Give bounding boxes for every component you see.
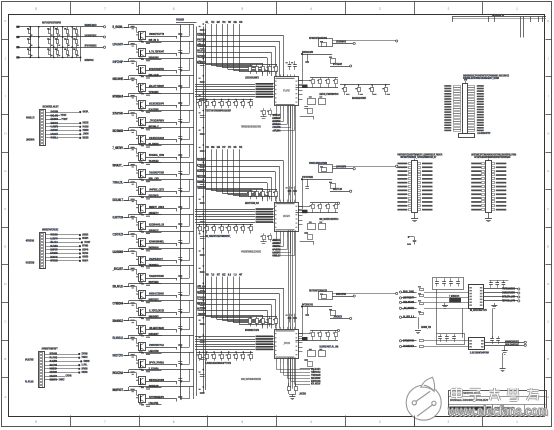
section 1 fan wire 1 <box>276 110 278 116</box>
wire out1 end tick Q13 <box>176 244 178 247</box>
section 3 rc lower rail <box>296 340 339 342</box>
svg-text:8DTH8K8: 8DTH8K8 <box>50 352 58 356</box>
wire input Q9 <box>124 165 130 167</box>
capacitor far bus Q13 <box>200 236 205 238</box>
connector J4 pin row 18 <box>444 130 451 132</box>
junction <box>38 46 40 48</box>
section 3 bus wire 3 <box>195 341 255 343</box>
IC U2 pin left 3 <box>273 214 274 216</box>
section 3 lower rail <box>196 352 253 354</box>
IC U3 pin top 5 <box>290 327 292 330</box>
resistor emitter Q4 <box>141 93 144 94</box>
border row tick left <box>2 114 9 116</box>
IC U2 body <box>275 203 299 232</box>
resistor base Q7 <box>131 130 135 131</box>
svg-text:P53NY4: P53NY4 <box>82 259 88 262</box>
wire emitter rail Q18 <box>146 329 177 331</box>
wire emitter rail Q22 <box>146 398 177 400</box>
wire emitter rail Q10 <box>146 191 177 193</box>
section 3 rc res rail <box>310 330 338 332</box>
wire base Q19 <box>124 338 137 340</box>
connector J5 body <box>412 161 418 213</box>
title block row line 1 <box>448 396 546 398</box>
connector J3 pin box <box>40 359 43 361</box>
IC U3 pin top 6 <box>294 327 296 330</box>
resistor base Q13 <box>131 233 135 234</box>
svg-text:1A_KP3_5_5: 1A_KP3_5_5 <box>403 315 414 319</box>
IC U1 body <box>275 77 299 106</box>
IC U1 pin number right <box>296 89 298 90</box>
wire collector Q22 <box>136 390 138 395</box>
resistor emitter Q19 <box>141 352 144 353</box>
capacitor bus Q19 <box>178 344 182 346</box>
section 2 IC pin name 4 <box>256 216 274 218</box>
connector J2 pin box <box>41 246 44 248</box>
svg-text:XTE: XTE <box>464 80 467 82</box>
svg-text:TV_TV7E: TV_TV7E <box>50 355 58 359</box>
wire out2 Q17 <box>146 318 162 320</box>
section 3 rc cap2 <box>304 359 308 361</box>
svg-text:B: B <box>4 357 6 361</box>
svg-text:0NDU9HE: 0NDU9HE <box>113 77 124 81</box>
section 1 rc box small <box>308 109 313 114</box>
capacitor bus Q20 <box>178 361 182 363</box>
wire base Q9 <box>124 165 137 167</box>
wire cell rail Q3 <box>129 58 194 60</box>
connector J4 pin row 13 <box>444 117 451 119</box>
IC U1 pin left 6 <box>273 96 274 98</box>
wire out1 end tick Q5 <box>176 105 178 108</box>
transistor Q21 body <box>139 377 146 385</box>
IC U1 pin top 3 <box>283 74 285 77</box>
wire riser Q15 <box>128 266 130 269</box>
connector J4 pin row 11 <box>444 111 451 113</box>
svg-text:DGD40GT: DGD40GT <box>51 128 59 132</box>
svg-text:HV0HX6M: HV0HX6M <box>51 110 59 114</box>
section 2 bus drop wire 5 <box>227 149 229 194</box>
connector J1 wire pin2 <box>46 115 60 117</box>
section 1 far resistor 3 <box>372 85 374 88</box>
resistor RN5B <box>76 40 78 44</box>
connector J3 pin box <box>40 362 43 364</box>
wire cell rail Q16 <box>129 283 194 285</box>
section 2 series resistor 7 <box>243 225 245 227</box>
section 3 IC pin name 1 <box>256 336 274 338</box>
border row tick right <box>546 377 552 379</box>
IC U1 pin top 5 <box>290 74 292 77</box>
section 3 rc transistor Qd <box>319 351 326 357</box>
section 3 fan wire 1 <box>276 362 278 370</box>
power rail tick <box>488 17 490 23</box>
IC U2 pin top 6 <box>294 200 296 203</box>
title block row line 2 <box>448 404 546 406</box>
border row tick left <box>2 227 9 229</box>
wire riser Q22 <box>128 387 130 390</box>
resistor emitter Q7 <box>141 145 144 146</box>
U5 gnd drop wire <box>502 353 504 369</box>
svg-text:2916018V: 2916018V <box>149 56 159 60</box>
connector J2 pin box <box>41 264 44 266</box>
section 1 far resistor 2 <box>358 85 360 88</box>
resistor base Q6 <box>131 112 135 113</box>
svg-text:DSEC0E: DSEC0E <box>83 123 89 125</box>
U5 cap cluster box <box>437 334 465 345</box>
wire base Q15 <box>124 269 137 271</box>
wire emitter rail Q4 <box>146 87 177 89</box>
svg-text:9UC: 9UC <box>234 147 237 149</box>
section 3 rc vert <box>307 307 309 315</box>
bus jog Q1 <box>189 24 191 36</box>
IC U2 pin top 5 <box>290 200 292 203</box>
section 3 rc transistor Qa <box>322 295 327 299</box>
section 3 bus wire 1 <box>195 336 255 338</box>
resistor emitter Q9 <box>141 179 144 180</box>
wire cell rail Q5 <box>129 93 194 95</box>
section 1 rc transistor Qd <box>319 99 326 105</box>
resistor base Q18 <box>131 320 135 321</box>
capacitor C4 <box>456 281 460 283</box>
connector J5 pin row 3 <box>397 170 407 172</box>
border row tick right <box>546 114 552 116</box>
section 3 input wire 5 <box>198 310 268 312</box>
capacitor bus Q13 <box>178 240 182 242</box>
svg-text:V_RK9T9: V_RK9T9 <box>51 125 59 129</box>
svg-text:NHBKA1TZBNUD: NHBKA1TZBNUD <box>149 291 164 295</box>
wire collector Q13 <box>136 235 138 240</box>
capacitor far bus Q16 <box>200 288 205 290</box>
IC U3 pin bottom wire 1 <box>276 359 278 363</box>
connector J3 pin box <box>40 353 43 355</box>
connector J2 pin box <box>41 252 44 254</box>
section 1 rc bottom wire <box>300 116 314 118</box>
svg-text:1LVPHC5BTR: 1LVPHC5BTR <box>336 167 346 169</box>
resistor base Q20 <box>131 354 135 355</box>
wire out2 Q22 <box>146 404 162 406</box>
section 1 bus wire 4 <box>195 91 255 93</box>
IC U2 pin bottom wire 3 <box>283 231 285 237</box>
connector J6 pin row 9 <box>471 193 481 195</box>
section 2 bus wire 6 <box>195 222 255 224</box>
section 3 rc box small <box>308 362 313 367</box>
section 3 pullup resistor 2 <box>256 317 258 319</box>
section 3 rc resistor 4 <box>335 330 337 332</box>
wire emitter rail Q21 <box>146 381 177 383</box>
section 1 IC pin name 5 <box>256 93 274 95</box>
connector J1 wire pin1 <box>46 112 79 114</box>
IC U3 pin top 3 <box>283 327 285 330</box>
svg-text:M82F6GT: M82F6GT <box>113 388 124 392</box>
section 2 fan wire 2 <box>280 236 282 243</box>
section 2 res rail end ring <box>337 202 339 204</box>
section 3 input wire 3 <box>198 299 276 301</box>
resistor emitter Q20 <box>141 370 144 371</box>
IC U2 pin number left <box>275 223 277 224</box>
capacitor bus Q18 <box>178 326 182 328</box>
connector J2 wire pin7 <box>46 257 79 259</box>
capacitor far bus Q1 <box>200 29 205 31</box>
wire cell rail Q6 <box>129 110 194 112</box>
clock wires into U4 <box>424 292 468 294</box>
connector J4 body <box>463 84 468 134</box>
svg-text:F: F <box>4 207 6 211</box>
svg-text:35T: 35T <box>217 275 221 277</box>
capacitor C3 <box>449 281 453 283</box>
section 3 fan wire 2 <box>280 363 282 372</box>
section 2 below gnd <box>261 241 267 243</box>
IC U4 right pin labels <box>480 287 483 289</box>
connector J2 pin terminal <box>79 260 81 262</box>
power rail top <box>452 16 546 18</box>
svg-text:6NK3S1E4C6B8: 6NK3S1E4C6B8 <box>149 378 164 382</box>
resistor RN5C <box>76 51 78 55</box>
border row tick right <box>546 227 552 229</box>
section 1 below resistor 1 <box>263 108 265 110</box>
svg-text:4: 4 <box>310 7 312 11</box>
section 3 bus down wire 4 <box>295 358 297 389</box>
wire base Q22 <box>124 390 137 392</box>
wire riser Q6 <box>128 110 130 113</box>
section 1 series resistor 8 <box>250 100 252 102</box>
section 1 bus wire 5 <box>195 94 255 96</box>
border row tick right <box>546 302 552 304</box>
wire collector Q21 <box>136 373 138 378</box>
wire out2 Q18 <box>146 335 162 337</box>
connector J6 pin row 2 <box>471 166 481 168</box>
bus jog Q20 <box>189 352 191 364</box>
section 2 rc transistor Qc <box>308 224 316 230</box>
svg-text:_NM_XKNZ7D: _NM_XKNZ7D <box>402 306 414 310</box>
transistor Q9 body <box>139 170 146 178</box>
IC U1 pin number left <box>275 93 277 94</box>
section 2 series resistor 4 <box>221 225 223 227</box>
wire emitter rail Q11 <box>146 208 177 210</box>
wire riser Q18 <box>128 318 130 321</box>
transistor Q17 body <box>139 308 146 316</box>
connector J1 pin box <box>41 144 44 146</box>
wire cell rail Q11 <box>129 196 194 198</box>
section 1 rc cap2 <box>304 106 308 108</box>
transistor Q6 body <box>139 118 146 126</box>
wire input Q2 <box>124 44 130 46</box>
section 2 input wire 1 <box>198 160 284 162</box>
connector J5 pin row 9 <box>397 193 407 195</box>
connector J1 wire pin4 <box>46 123 79 125</box>
wire base Q6 <box>124 113 137 115</box>
connector J6 pin row 13 <box>471 209 481 211</box>
section 1 IC pin name 3 <box>256 88 274 90</box>
svg-text:4F4Y0S0MEHP1: 4F4Y0S0MEHP1 <box>149 395 164 399</box>
section 1 bus down wire 1 <box>288 105 290 202</box>
IC U2 pin number left <box>275 227 277 228</box>
bus jog Q4 <box>189 76 191 88</box>
section 3 series resistor 7 <box>243 352 245 354</box>
wire input Q1 <box>124 27 130 29</box>
section 3 bus wire 2 <box>195 339 255 341</box>
IC U3 bottom pin numbers <box>276 357 295 358</box>
svg-text:9VXGPXS2NYAK: 9VXGPXS2NYAK <box>149 67 165 71</box>
resistor emitter Q13 <box>141 249 144 250</box>
svg-text:YHC162E0: YHC162E0 <box>176 20 184 22</box>
section 3 rc wire mid <box>302 306 332 308</box>
section 2 IC pin name 1 <box>256 208 274 210</box>
svg-text:Y_B: Y_B <box>234 275 237 277</box>
svg-text:SLBU5XLP0S3T_0U__8M1: SLBU5XLP0S3T_0U__8M1 <box>319 347 338 349</box>
svg-text:LMZ7HR_F7D8K58D8YB4U: LMZ7HR_F7D8K58D8YB4U <box>319 93 338 96</box>
wire emitter rail Q8 <box>146 157 177 159</box>
svg-text:VD1: VD1 <box>222 22 226 24</box>
wire emitter rail Q3 <box>146 70 177 72</box>
wire riser Q5 <box>128 93 130 96</box>
svg-text:FGAR9EKS7A: FGAR9EKS7A <box>403 344 414 348</box>
IC U2 bottom pin numbers <box>276 229 295 230</box>
section 2 bus drop wire 2 <box>211 149 213 190</box>
wire grid row <box>19 57 81 59</box>
wire emitter rail Q2 <box>146 53 177 55</box>
wire out1 end tick Q22 <box>176 399 178 402</box>
svg-text:EK24ZVTHBN_3HU: EK24ZVTHBN_3HU <box>245 202 259 205</box>
IC U3 pin bottom wire 4 <box>287 359 289 366</box>
wire riser Q1 <box>128 24 130 27</box>
wire out1 end tick Q19 <box>176 347 178 350</box>
clock block resistor column <box>420 289 424 291</box>
capacitor far bus Q3 <box>200 63 205 65</box>
section 1 fan wire 2 <box>280 111 282 118</box>
wire emitter rail Q20 <box>146 364 177 366</box>
IC U1 pin number right <box>296 102 298 103</box>
svg-text:1VMZXXVGK5DV: 1VMZXXVGK5DV <box>502 291 515 295</box>
svg-text:3: 3 <box>379 420 381 424</box>
connector J3 pin box <box>40 365 43 367</box>
capacitor bus Q14 <box>178 257 182 259</box>
IC U1 pin number left <box>275 102 277 103</box>
transistor Q13 body <box>139 239 146 247</box>
connector J3 pin box <box>40 356 43 358</box>
svg-text:M_8: M_8 <box>228 275 232 277</box>
svg-text:E7GDAFT: E7GDAFT <box>51 132 59 136</box>
connector J6 gnd wire <box>488 213 490 219</box>
svg-text:NXZGFZXY7: NXZGFZXY7 <box>197 169 206 172</box>
bottom wire join <box>289 394 296 396</box>
section 1 pullup resistor 5 <box>276 64 278 66</box>
wire out1 end tick Q11 <box>176 209 178 212</box>
wire collector Q1 <box>136 27 138 32</box>
section 2 bus down wire 1 <box>288 230 290 329</box>
section 3 input wire 1 <box>198 288 284 290</box>
connector J1 pin box <box>41 117 44 119</box>
svg-text:MAZ_BH2: MAZ_BH2 <box>51 113 59 117</box>
bus line D <box>203 27 205 394</box>
IC U2 pin bottom wire 1 <box>276 231 278 235</box>
connector J2 pin box <box>41 249 44 251</box>
IC U2 pin bottom wire 4 <box>287 231 289 238</box>
IC U3 pin bottom wire 2 <box>280 359 282 364</box>
wire row4 drop <box>80 57 82 61</box>
resistor RN3B <box>57 40 59 44</box>
svg-text:DE42MBL7C: DE42MBL7C <box>197 180 206 183</box>
transistor Q14 body <box>139 257 146 265</box>
connector J4 pin row 8 <box>444 103 451 105</box>
connector J4 pin row 15 <box>444 122 451 124</box>
svg-text:1: 1 <box>516 420 518 424</box>
connector J4 pin row 1 <box>444 85 451 87</box>
section 1 bus down wire 4 <box>295 105 297 202</box>
svg-text:XSZZTYLS5: XSZZTYLS5 <box>333 189 342 191</box>
section 1 bus wire 3 <box>195 89 255 91</box>
IC U2 pin number left <box>275 210 277 211</box>
section 1 rc blob <box>302 85 308 89</box>
svg-text:DN6_D13Z55LY3N9TSYL8: DN6_D13Z55LY3N9TSYL8 <box>319 219 338 221</box>
section 3 input wire 4 <box>198 304 272 306</box>
section 2 bus wire 3 <box>195 214 255 216</box>
section 3 fan wire 4 <box>287 366 289 379</box>
junction <box>71 46 73 48</box>
capacitor far bus Q9 <box>200 167 205 169</box>
IC U1 pin top 1 <box>276 74 278 77</box>
section 1 series resistor 1 <box>199 100 201 102</box>
IC U2 pin number left <box>275 218 277 219</box>
svg-text:_5VC2R7: _5VC2R7 <box>112 267 123 271</box>
capacitor far bus Q2 <box>200 46 205 48</box>
IC U1 pin left 1 <box>273 83 274 85</box>
svg-text:XFSG3V82M21R: XFSG3V82M21R <box>85 45 97 48</box>
IC U2 pin top 4 <box>287 200 289 203</box>
section 2 rc wires from IC <box>298 206 310 208</box>
IC U1 pin bottom wire 4 <box>287 106 289 113</box>
wire collector Q10 <box>136 183 138 188</box>
bus jog Q19 <box>189 335 191 347</box>
wire cell rail Q21 <box>129 369 194 371</box>
wire input Q11 <box>124 200 130 202</box>
junction <box>71 26 73 28</box>
section 2 bus drop wire 3 <box>216 149 218 192</box>
section 1 bus drop wire 7 <box>239 24 241 72</box>
resistor emitter Q17 <box>141 318 144 319</box>
connector J1 wire pin5 <box>46 126 79 128</box>
svg-text:31XXB4VAD_XS: 31XXB4VAD_XS <box>149 222 164 226</box>
section 3 rc resistor 2 <box>320 330 322 332</box>
section 1 bus drop wire 3 <box>216 24 218 67</box>
section 3 series resistor 1 <box>199 352 201 354</box>
U5 resistors <box>420 340 424 342</box>
svg-text:E37VHKG42: E37VHKG42 <box>197 297 206 300</box>
capacitor bus Q3 <box>178 67 182 69</box>
bus line B <box>193 25 195 400</box>
U5 input labels <box>399 340 401 342</box>
IC U3 pin left 2 <box>273 338 274 340</box>
connector J1 pin box <box>41 126 44 128</box>
connector J6 pin row 7 <box>471 186 481 188</box>
section 1 fan wire 6 <box>294 116 296 131</box>
section 3 rc transistor Qc <box>308 351 316 357</box>
wire collector Q16 <box>136 286 138 291</box>
bottom fan resistor Rb <box>295 387 298 391</box>
junction <box>53 57 55 59</box>
vertical link wires <box>462 308 464 338</box>
section 3 res rail end ring <box>337 329 339 331</box>
svg-text:www.elecfans.com: www.elecfans.com <box>447 404 548 419</box>
wire out2 Q12 <box>146 232 162 234</box>
wire emitter rail Q17 <box>146 312 177 314</box>
svg-text:T8H: T8H <box>206 275 209 277</box>
wire cell rail Q19 <box>129 335 194 337</box>
svg-text:LTGLUPNL: LTGLUPNL <box>149 401 159 405</box>
capacitor C12 <box>452 336 456 338</box>
section 3 series resistor 3 <box>214 352 216 354</box>
section 3 pullup resistor 5 <box>276 317 278 319</box>
wire base Q4 <box>124 79 137 81</box>
section 2 series resistor 6 <box>236 225 238 227</box>
svg-text:DSCZ4VERZR_48LUKT: DSCZ4VERZR_48LUKT <box>43 105 59 108</box>
